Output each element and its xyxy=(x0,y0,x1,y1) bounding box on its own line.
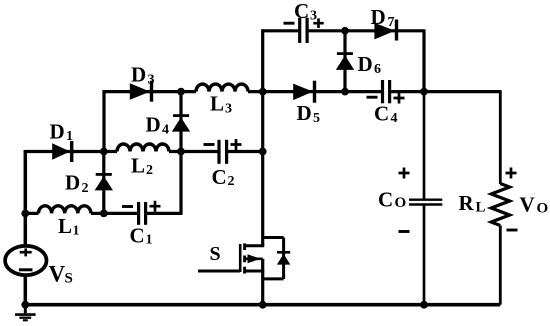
diode D6 xyxy=(336,52,354,70)
VO plus xyxy=(506,168,517,179)
capacitor C3 xyxy=(300,18,307,43)
MOSFET S body lead with arrow xyxy=(245,257,263,260)
svg-text:D: D xyxy=(371,5,386,29)
svg-text:O: O xyxy=(537,201,549,217)
capacitor C4 xyxy=(383,80,390,103)
wire second rail to right corner xyxy=(424,90,500,93)
wire fourth rail C1 segment right xyxy=(147,212,181,215)
svg-text:C: C xyxy=(378,187,393,211)
wire D2 branch vertical xyxy=(102,152,105,214)
wire fourth rail L1 leads xyxy=(25,212,104,215)
node at L1-D2-C1 junction xyxy=(100,210,108,218)
node at CO bottom junction xyxy=(420,301,428,309)
capacitor C2 xyxy=(219,140,227,164)
resistor RL xyxy=(491,184,509,226)
wire D4 branch vertical xyxy=(179,92,182,152)
svg-text:2: 2 xyxy=(146,163,153,178)
wire C1 right corner vertical up to L2 node xyxy=(179,152,182,215)
diode D5 xyxy=(293,81,316,103)
node at D5-D6-C4 junction xyxy=(341,88,349,96)
node at C2-switch junction xyxy=(259,148,267,156)
wire second rail C4 segment left xyxy=(345,90,381,93)
C2 plus xyxy=(231,139,242,150)
diode D4 xyxy=(172,114,190,131)
wire third rail C2 segment right xyxy=(228,150,263,153)
wire second rail C4 segment right xyxy=(391,90,424,93)
CO minus xyxy=(399,230,410,233)
MOSFET body-diode bottom lead xyxy=(263,277,284,280)
wire D6 branch vertical xyxy=(343,31,346,92)
svg-text:C: C xyxy=(130,224,145,248)
C4 plus xyxy=(394,93,405,104)
wire CO vertical lower xyxy=(423,205,426,304)
inductor L1 xyxy=(39,206,91,214)
svg-text:D: D xyxy=(65,171,80,195)
svg-text:L: L xyxy=(58,214,72,238)
node at switch source junction xyxy=(259,301,267,309)
wire second rail D5 segment xyxy=(263,90,345,93)
svg-text:L: L xyxy=(210,92,224,116)
MOSFET S gate lead xyxy=(198,270,240,273)
svg-text:L: L xyxy=(131,154,145,178)
node at VS bottom junction xyxy=(21,301,29,309)
svg-text:S: S xyxy=(65,271,73,287)
capacitor C1 xyxy=(139,202,146,225)
wire third rail C2 segment left xyxy=(181,150,218,153)
C3 minus xyxy=(284,22,295,25)
node at L3-D5 junction xyxy=(259,88,267,96)
wire CO vertical upper xyxy=(423,92,426,199)
svg-text:D: D xyxy=(297,101,312,125)
svg-text:D: D xyxy=(131,62,146,86)
wire bottom rail xyxy=(25,303,500,307)
C4 minus xyxy=(367,96,378,99)
source VS circle xyxy=(5,246,46,275)
wire top-left corner vertical down to D5 node xyxy=(261,29,263,91)
node at C4-D7-CO junction xyxy=(420,88,428,96)
ground xyxy=(15,305,36,321)
MOSFET body diode xyxy=(277,251,290,265)
svg-text:V: V xyxy=(520,192,535,216)
svg-text:D: D xyxy=(358,52,373,76)
C3 plus xyxy=(313,18,323,28)
wire top rail left of C3 xyxy=(263,29,299,32)
wire left vertical D1 corner down to VS xyxy=(24,150,28,247)
MOSFET S gate bar xyxy=(239,244,242,272)
MOSFET body-diode branch vertical xyxy=(282,238,285,279)
VS plus xyxy=(20,248,32,256)
wire third rail D1 segment xyxy=(25,150,104,153)
svg-text:L: L xyxy=(476,200,486,216)
VS minus xyxy=(19,268,33,271)
svg-text:2: 2 xyxy=(228,174,235,189)
svg-text:C: C xyxy=(374,102,389,126)
wire right branch vertical lower (RL to bottom) xyxy=(499,226,502,305)
node at C3-D7 junction xyxy=(341,27,349,35)
svg-text:1: 1 xyxy=(73,224,80,239)
inductor L3 xyxy=(196,84,248,91)
svg-text:3: 3 xyxy=(310,9,317,24)
wire VS bottom to bottom rail xyxy=(24,275,28,305)
svg-text:2: 2 xyxy=(82,181,89,196)
C2 minus xyxy=(204,143,215,146)
wire L3 leads xyxy=(181,90,263,93)
wire top rail C3 to D7 corner xyxy=(309,29,424,32)
diode D7 xyxy=(374,20,398,41)
svg-text:7: 7 xyxy=(388,15,395,30)
svg-text:C: C xyxy=(294,0,309,23)
capacitor CO xyxy=(409,200,442,205)
svg-text:1: 1 xyxy=(66,129,73,144)
node at D3-L3-D4 junction xyxy=(177,88,185,96)
wire second rail D3 segment xyxy=(104,90,181,93)
svg-text:3: 3 xyxy=(225,102,232,117)
MOSFET S source lead xyxy=(245,270,265,273)
svg-text:4: 4 xyxy=(391,111,398,126)
wire fourth rail C1 segment left xyxy=(104,212,137,215)
VO minus xyxy=(507,229,518,232)
diode D1 xyxy=(52,141,73,162)
svg-text:R: R xyxy=(459,191,475,215)
svg-text:O: O xyxy=(395,195,407,211)
node at D1-L2-D2 junction xyxy=(100,148,108,156)
svg-text:S: S xyxy=(210,243,221,265)
svg-text:1: 1 xyxy=(146,233,153,248)
MOSFET body-diode top lead xyxy=(263,236,284,239)
wire D3 corner vertical down to D1 node xyxy=(102,90,105,151)
svg-text:C: C xyxy=(212,165,227,189)
node at L2-C2-D4 junction xyxy=(177,148,185,156)
diode D3 xyxy=(130,81,153,102)
svg-text:6: 6 xyxy=(374,62,381,77)
wire right branch vertical upper (to RL) xyxy=(499,90,502,184)
MOSFET S drain lead xyxy=(245,244,265,247)
C1 plus xyxy=(150,201,161,212)
wire middle vertical C2 node down to MOSFET drain xyxy=(261,92,264,246)
wire MOSFET source vertical down to bottom rail xyxy=(261,259,264,305)
svg-text:D: D xyxy=(50,120,65,144)
svg-text:V: V xyxy=(49,261,66,286)
MOSFET S channel dashes xyxy=(243,243,246,273)
svg-text:4: 4 xyxy=(162,122,169,137)
C1 minus xyxy=(122,205,133,208)
diode D2 xyxy=(95,173,113,190)
CO plus xyxy=(399,168,410,179)
svg-text:5: 5 xyxy=(313,111,320,126)
inductor L2 xyxy=(117,144,169,152)
svg-text:D: D xyxy=(146,112,161,136)
node at L1 left junction xyxy=(21,210,29,218)
wire D7 corner vertical down to C4 node xyxy=(422,29,425,91)
wire L2 leads xyxy=(104,150,181,153)
svg-text:3: 3 xyxy=(148,72,155,87)
